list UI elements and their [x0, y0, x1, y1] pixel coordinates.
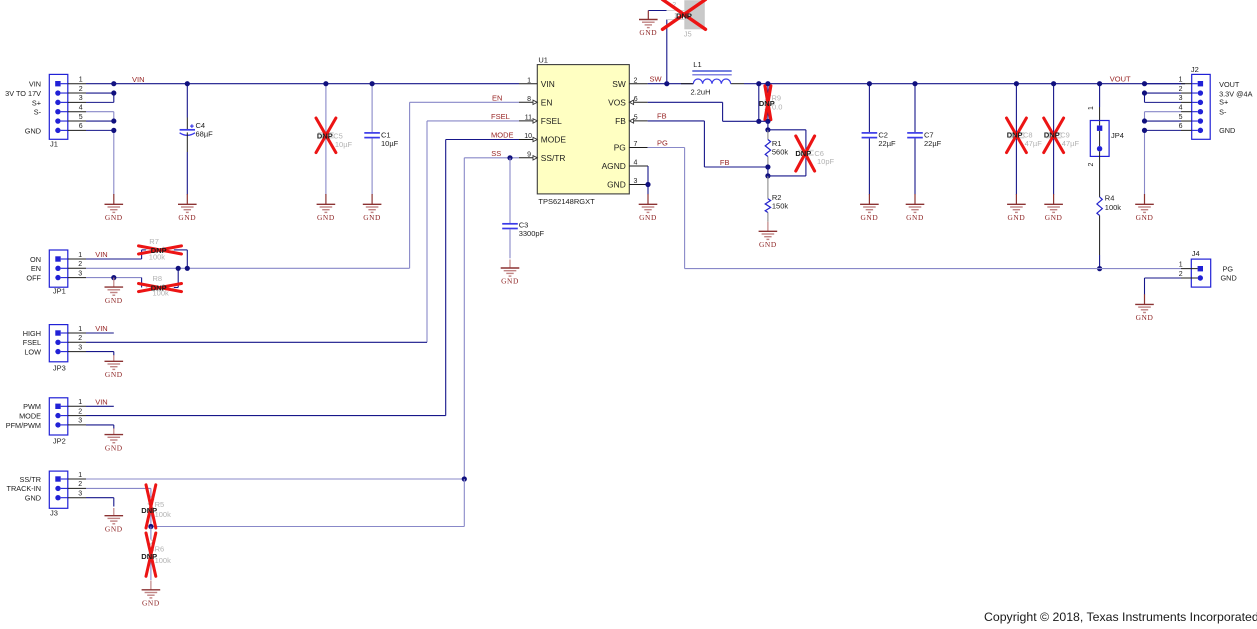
svg-text:J1: J1: [50, 140, 58, 149]
svg-text:1: 1: [1088, 106, 1095, 110]
svg-text:FB: FB: [720, 158, 730, 167]
svg-text:2: 2: [78, 481, 82, 488]
svg-text:150k: 150k: [772, 202, 789, 211]
wire J3 pin3 to ground: [86, 498, 114, 507]
svg-text:J4: J4: [1192, 249, 1200, 258]
U1 pin 2 SW: [612, 77, 647, 88]
svg-text:DNP: DNP: [141, 552, 157, 561]
jumper JP1: [26, 250, 86, 296]
svg-text:2: 2: [78, 261, 82, 268]
svg-text:DNP: DNP: [317, 132, 333, 141]
wire J2 GND drop: [1144, 130, 1146, 194]
resistor R1 560k: [765, 130, 788, 170]
svg-text:2.2uH: 2.2uH: [691, 87, 711, 96]
svg-text:5: 5: [1179, 114, 1183, 121]
svg-text:DNP: DNP: [151, 246, 167, 255]
svg-text:2: 2: [1179, 86, 1183, 93]
ground JP2: [105, 428, 124, 452]
svg-text:2: 2: [634, 77, 638, 84]
net label VIN at JP3: [95, 324, 108, 333]
U1 pin 7 PG: [614, 141, 648, 152]
wire J1 pin3 S+ bend: [86, 93, 114, 102]
net label VIN: [132, 75, 145, 84]
svg-text:SS/TR: SS/TR: [541, 153, 566, 163]
resistor R9 DNP: [759, 81, 783, 124]
op-amp U1 TPS62148RGXT body: [537, 56, 629, 207]
svg-text:SS: SS: [491, 149, 501, 158]
svg-text:J3: J3: [50, 509, 58, 518]
svg-text:U1: U1: [538, 56, 548, 65]
svg-text:GND: GND: [105, 443, 123, 452]
wire J5 pin2 to GND: [648, 10, 666, 12]
jumper JP3: [23, 325, 86, 373]
ground C3: [501, 260, 520, 286]
svg-text:DNP: DNP: [795, 149, 811, 158]
wire FB net from pin: [648, 112, 768, 167]
svg-text:10: 10: [524, 133, 532, 140]
wire FSEL net: [86, 121, 519, 342]
svg-text:5: 5: [79, 114, 83, 121]
ground C8: [1007, 194, 1026, 222]
svg-text:HIGH: HIGH: [23, 329, 41, 338]
svg-text:4: 4: [634, 160, 638, 167]
wire J1 pin6: [86, 129, 114, 131]
U1 pin 5 FB: [615, 115, 648, 126]
svg-text:1: 1: [527, 78, 531, 85]
svg-text:PG: PG: [614, 143, 626, 153]
svg-text:2: 2: [78, 408, 82, 415]
ground J4: [1135, 294, 1154, 322]
svg-text:DNP: DNP: [759, 99, 775, 108]
svg-text:FB: FB: [657, 112, 667, 121]
svg-text:TPS62148RGXT: TPS62148RGXT: [538, 197, 595, 206]
wire VIN rail: [86, 83, 519, 85]
svg-text:1: 1: [78, 472, 82, 479]
connector J5 DNP: [663, 0, 706, 38]
svg-text:3: 3: [78, 344, 82, 351]
capacitor C9 DNP: [1044, 81, 1080, 195]
wire J2 pin3 S+ bend: [1145, 93, 1182, 102]
svg-text:TRACK-IN: TRACK-IN: [7, 484, 41, 493]
svg-text:DNP: DNP: [151, 284, 167, 293]
svg-text:FB: FB: [615, 116, 626, 126]
svg-text:S+: S+: [32, 98, 41, 107]
svg-text:GND: GND: [317, 213, 335, 222]
wire VOS net: [648, 102, 768, 121]
wire JP1 pin1 VIN: [86, 250, 142, 259]
svg-text:JP3: JP3: [53, 363, 66, 372]
net label MODE: [491, 131, 514, 140]
svg-text:GND: GND: [906, 213, 924, 222]
svg-text:1: 1: [79, 77, 83, 84]
ground C9: [1044, 194, 1063, 222]
jumper JP4: [1088, 81, 1124, 166]
ground J3: [105, 508, 124, 533]
wire J2 pin6: [1145, 129, 1182, 131]
ground C4: [178, 194, 197, 222]
svg-text:GND: GND: [639, 28, 657, 37]
svg-text:VIN: VIN: [29, 80, 41, 89]
net label FSEL: [491, 112, 510, 121]
svg-text:L1: L1: [693, 60, 701, 69]
svg-text:J5: J5: [684, 29, 692, 38]
ground C5: [317, 194, 336, 222]
svg-text:SW: SW: [612, 79, 626, 89]
wire MODE net: [86, 140, 519, 416]
wire J5 to SW vertical: [666, 20, 668, 84]
wire U1 AGND to GND net: [645, 166, 650, 195]
resistor R8 DNP 100k: [139, 268, 182, 297]
svg-text:PFM/PWM: PFM/PWM: [6, 421, 41, 430]
net label FB low: [720, 158, 730, 167]
svg-text:DNP: DNP: [676, 11, 692, 20]
capacitor C8 DNP: [1007, 81, 1043, 195]
ground J1: [105, 194, 124, 222]
svg-text:6: 6: [1179, 123, 1183, 130]
svg-text:3300pF: 3300pF: [519, 229, 545, 238]
svg-text:VIN: VIN: [132, 75, 145, 84]
ground C1: [363, 194, 382, 222]
U1 pin 9 SS/TR: [519, 152, 565, 163]
svg-text:OFF: OFF: [26, 274, 41, 283]
wire PG net: [648, 148, 1181, 269]
svg-text:SS/TR: SS/TR: [20, 475, 42, 484]
svg-text:SW: SW: [650, 75, 663, 84]
svg-text:EN: EN: [31, 264, 41, 273]
resistor R6 DNP 100k: [141, 527, 171, 581]
svg-text:1: 1: [78, 326, 82, 333]
svg-text:R4: R4: [1105, 194, 1115, 203]
svg-text:3: 3: [78, 418, 82, 425]
wire J4 GND: [1145, 278, 1182, 295]
svg-text:LOW: LOW: [24, 348, 41, 357]
ground R2: [759, 222, 778, 249]
svg-text:10µF: 10µF: [381, 139, 399, 148]
ground U1: [639, 194, 658, 222]
svg-text:GND: GND: [1007, 213, 1025, 222]
svg-text:PWM: PWM: [23, 402, 41, 411]
svg-text:FSEL: FSEL: [541, 116, 562, 126]
svg-text:GND: GND: [142, 599, 160, 608]
wire JP2 pin1 VIN stub: [86, 405, 114, 407]
svg-text:47µF: 47µF: [1062, 139, 1080, 148]
svg-text:GND: GND: [25, 126, 41, 135]
wire EN net: [86, 102, 519, 268]
svg-text:GND: GND: [1136, 313, 1154, 322]
svg-text:2: 2: [1088, 163, 1095, 167]
svg-text:4: 4: [79, 105, 83, 112]
svg-text:47µF: 47µF: [1025, 139, 1043, 148]
wire J2 pin1: [1145, 83, 1182, 85]
copyright text: [984, 610, 1257, 624]
svg-text:MODE: MODE: [19, 412, 41, 421]
wire J1 pin5: [86, 120, 114, 122]
wire VOS feed vertical: [756, 81, 761, 124]
wire J2 pin2: [1145, 92, 1182, 94]
svg-text:10pF: 10pF: [817, 157, 835, 166]
svg-text:DNP: DNP: [1044, 131, 1060, 140]
svg-text:GND: GND: [105, 524, 123, 533]
svg-text:VOS: VOS: [608, 97, 626, 107]
resistor R4 100k: [1097, 151, 1121, 271]
svg-text:68µF: 68µF: [196, 130, 214, 139]
wire JP3 pin3 to ground: [86, 352, 114, 356]
svg-text:VOUT: VOUT: [1110, 75, 1131, 84]
net label VIN at JP2: [95, 397, 108, 406]
wire J1 pin4 S- bend: [86, 112, 114, 121]
wire R9 to R1: [765, 121, 770, 132]
wire J3 pin2 TRACK-IN: [86, 487, 151, 489]
svg-text:Copyright © 2018, Texas Instru: Copyright © 2018, Texas Instruments Inco…: [984, 610, 1257, 624]
ground J2: [1135, 194, 1154, 222]
svg-text:VIN: VIN: [95, 324, 108, 333]
connector J4: [1179, 249, 1237, 287]
svg-text:JP1: JP1: [53, 287, 66, 296]
svg-text:1: 1: [1179, 262, 1183, 269]
svg-text:10µF: 10µF: [335, 140, 353, 149]
svg-text:3: 3: [1179, 95, 1183, 102]
svg-text:GND: GND: [1219, 126, 1235, 135]
svg-text:GND: GND: [1045, 213, 1063, 222]
svg-text:JP2: JP2: [53, 437, 66, 446]
svg-text:22µF: 22µF: [878, 139, 896, 148]
svg-text:VIN: VIN: [541, 79, 555, 89]
svg-text:GND: GND: [105, 370, 123, 379]
svg-text:5: 5: [634, 115, 638, 122]
wire JP1 pin3: [86, 275, 142, 280]
svg-text:1: 1: [78, 252, 82, 259]
svg-text:100k: 100k: [1105, 203, 1122, 212]
net label PG: [657, 138, 668, 147]
capacitor C5 DNP: [316, 81, 353, 195]
net label VIN at JP1: [95, 250, 108, 259]
capacitor C6 DNP parallel loop: [768, 130, 835, 176]
resistor R7 DNP 100k: [139, 237, 188, 268]
svg-text:GND: GND: [501, 277, 519, 286]
wire SS vertical to track divider: [151, 479, 464, 527]
svg-text:AGND: AGND: [602, 161, 626, 171]
svg-text:ON: ON: [30, 255, 41, 264]
svg-text:3: 3: [634, 178, 638, 185]
svg-text:GND: GND: [363, 213, 381, 222]
connector J1: [5, 74, 86, 148]
capacitor C1: [364, 81, 398, 195]
capacitor C3: [502, 158, 544, 258]
wire SS net: [464, 155, 519, 479]
ground C7: [906, 194, 925, 222]
net label VOUT: [1110, 75, 1131, 84]
svg-text:GND: GND: [25, 494, 41, 503]
svg-text:FSEL: FSEL: [23, 338, 41, 347]
svg-text:1: 1: [78, 399, 82, 406]
svg-text:3: 3: [79, 95, 83, 102]
svg-text:11: 11: [525, 115, 532, 122]
svg-text:GND: GND: [607, 180, 626, 190]
svg-text:R7: R7: [149, 237, 159, 246]
capacitor C7: [907, 81, 941, 195]
net label EN: [492, 94, 502, 103]
net label SW: [650, 75, 663, 84]
svg-text:EN: EN: [541, 97, 553, 107]
svg-text:GND: GND: [1136, 213, 1154, 222]
svg-text:GND: GND: [639, 213, 657, 222]
net label SS: [491, 149, 501, 158]
svg-text:7: 7: [634, 141, 638, 148]
svg-text:GND: GND: [1221, 273, 1237, 282]
svg-text:JP4: JP4: [1111, 131, 1124, 140]
svg-text:GND: GND: [105, 296, 123, 305]
svg-text:S-: S-: [34, 108, 42, 117]
svg-text:3: 3: [78, 491, 82, 498]
junction dots EN net: [176, 266, 190, 271]
svg-text:8: 8: [527, 96, 531, 103]
wire JP2 pin3 to ground: [86, 425, 114, 429]
ground C2: [860, 194, 879, 222]
node FB junction: [765, 167, 770, 178]
svg-text:2: 2: [79, 86, 83, 93]
svg-text:6: 6: [634, 96, 638, 103]
svg-text:R8: R8: [153, 274, 163, 283]
wire J2 pin5: [1145, 120, 1182, 122]
resistor R5 DNP 100k: [141, 485, 171, 528]
svg-text:EN: EN: [492, 94, 502, 103]
svg-text:3V TO 17V: 3V TO 17V: [5, 89, 41, 98]
connector J3: [7, 471, 86, 517]
svg-text:GND: GND: [105, 213, 123, 222]
svg-text:PG: PG: [657, 138, 668, 147]
U1 pin 8 EN: [519, 96, 552, 107]
wire J1 pin2 to VIN junction: [86, 92, 114, 94]
svg-text:GND: GND: [759, 240, 777, 249]
ground R6: [142, 581, 161, 608]
svg-text:3: 3: [78, 270, 82, 277]
svg-text:1: 1: [1179, 77, 1183, 84]
svg-text:S+: S+: [1219, 98, 1228, 107]
svg-text:9: 9: [527, 152, 531, 159]
wire SS/TR J3 horizontal: [86, 476, 467, 481]
wire JP3 pin1 VIN stub: [86, 332, 114, 334]
svg-text:4: 4: [1179, 105, 1183, 112]
svg-text:VIN: VIN: [95, 250, 108, 259]
wire J1 GND drop: [113, 130, 115, 194]
wire SW node: [648, 81, 694, 86]
wire VOUT rail: [759, 83, 1185, 85]
junction dots J1: [111, 81, 116, 133]
capacitor C2: [862, 81, 896, 195]
svg-text:2: 2: [78, 335, 82, 342]
ground JP3: [105, 355, 124, 379]
U1 pin 6 VOS: [608, 96, 647, 107]
svg-text:22µF: 22µF: [924, 139, 942, 148]
svg-text:MODE: MODE: [491, 131, 514, 140]
jumper JP2: [6, 398, 86, 446]
U1 pin 10 MODE: [519, 133, 566, 144]
svg-text:GND: GND: [860, 213, 878, 222]
junction dots J2: [1142, 81, 1147, 133]
U1 pin 3 GND: [607, 178, 647, 189]
U1 pin 11 FSEL: [519, 115, 562, 126]
resistor R2 150k: [765, 176, 788, 222]
svg-text:GND: GND: [178, 213, 196, 222]
connector J2: [1179, 65, 1253, 139]
ground JP1: [105, 278, 124, 305]
svg-text:DNP: DNP: [141, 506, 157, 515]
inductor L1: [681, 60, 759, 96]
svg-text:MODE: MODE: [541, 135, 567, 145]
svg-text:2: 2: [1179, 271, 1183, 278]
svg-text:FSEL: FSEL: [491, 112, 510, 121]
svg-text:VOUT: VOUT: [1219, 80, 1240, 89]
svg-text:S-: S-: [1219, 108, 1227, 117]
svg-text:6: 6: [79, 123, 83, 130]
svg-text:560k: 560k: [772, 148, 789, 157]
node SS track junction: [148, 524, 153, 529]
U1 pin 4 AGND: [602, 160, 648, 171]
svg-text:VIN: VIN: [95, 397, 108, 406]
ground J5: [639, 11, 658, 38]
svg-text:J2: J2: [1191, 65, 1199, 74]
capacitor C4: [180, 81, 214, 195]
U1 pin 1 VIN: [519, 78, 555, 89]
svg-text:DNP: DNP: [1007, 131, 1023, 140]
wire J2 pin4 S- bend: [1145, 112, 1182, 121]
